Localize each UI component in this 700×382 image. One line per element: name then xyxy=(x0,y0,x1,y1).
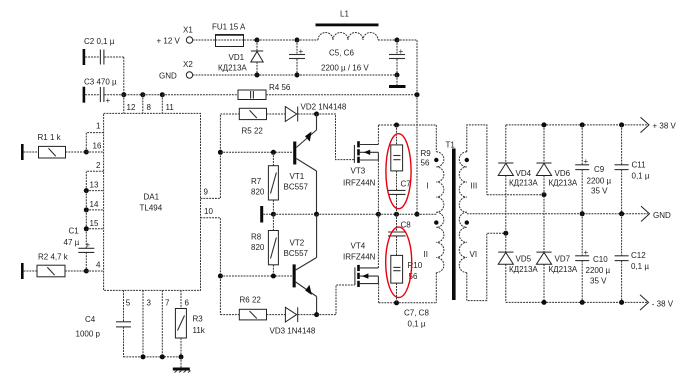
pin 11 stub xyxy=(162,95,174,114)
wire -38V rail xyxy=(506,301,647,303)
svg-text:+: + xyxy=(584,157,589,166)
junction dot C6 / GND stub xyxy=(395,73,400,78)
svg-text:II: II xyxy=(424,250,428,259)
svg-text:R3: R3 xyxy=(193,315,204,324)
junction dot pin1/pin16 xyxy=(84,150,89,155)
svg-text:КД213А: КД213А xyxy=(549,179,578,188)
svg-text:TL494: TL494 xyxy=(140,204,163,213)
highlight ellipse snubber 2 xyxy=(386,227,412,297)
svg-text:BC557: BC557 xyxy=(284,249,309,258)
svg-text:47 µ: 47 µ xyxy=(64,238,80,247)
resistor R5 22 xyxy=(239,108,266,135)
svg-text:I: I xyxy=(427,182,429,191)
svg-text:C1: C1 xyxy=(69,227,80,236)
svg-text:C4: C4 xyxy=(85,315,96,324)
wire VCC row to R4 xyxy=(162,94,238,96)
wire VD6 vertical top xyxy=(543,125,545,163)
wire R6 to VD3 xyxy=(267,314,286,316)
junction dot R7 top xyxy=(271,150,276,155)
svg-text:3: 3 xyxy=(147,299,152,308)
transformer T1 winding VI xyxy=(459,212,477,272)
resistor R4 56 xyxy=(238,83,291,100)
svg-text:R9: R9 xyxy=(421,149,432,158)
pin 13 wire xyxy=(86,181,103,191)
svg-text:16: 16 xyxy=(93,142,102,151)
transformer T1 winding II xyxy=(424,212,444,272)
wire primary top lead xyxy=(435,125,437,152)
phase dot winding III xyxy=(465,158,469,162)
wire secondary top lead jog xyxy=(467,125,487,195)
resistor R10 56 xyxy=(391,255,423,302)
svg-text:35 V: 35 V xyxy=(590,277,607,286)
transistor Q1 VT1 BC557 xyxy=(284,114,317,214)
pin 12 stub xyxy=(124,95,136,114)
svg-text:GND: GND xyxy=(653,211,671,220)
svg-text:12: 12 xyxy=(127,103,136,112)
wire VCC row pin8 to pin11 xyxy=(143,94,163,96)
svg-text:C12: C12 xyxy=(631,251,646,260)
svg-text:+: + xyxy=(584,248,589,257)
svg-text:VD1: VD1 xyxy=(229,53,245,62)
wire VD5 anode down xyxy=(505,264,507,302)
svg-text:КД213А: КД213А xyxy=(509,179,538,188)
junction dot +38 rail / C9 xyxy=(580,122,585,127)
junction dot VT1 emitter node xyxy=(314,112,319,117)
fuse FU1 15 A xyxy=(212,23,246,47)
wire VT3 source down xyxy=(377,160,379,214)
junction dot GND rail / C11 C12 xyxy=(619,211,624,216)
junction dot snubber bottom xyxy=(394,300,399,305)
svg-text:2: 2 xyxy=(96,161,101,170)
svg-text:2200 µ: 2200 µ xyxy=(587,177,612,186)
junction dot VCC at pin 12 stub xyxy=(121,92,126,97)
svg-text:BC557: BC557 xyxy=(284,183,309,192)
junction dot at C5 / +12 rail xyxy=(295,38,300,43)
svg-text:6: 6 xyxy=(185,299,190,308)
pin 15 wire xyxy=(86,219,103,229)
svg-text:VI: VI xyxy=(470,250,478,259)
transformer T1 winding III xyxy=(459,152,477,212)
svg-text:КД213А: КД213А xyxy=(509,265,538,274)
junction dot GND rail / C9 C10 xyxy=(580,211,585,216)
junction dot pin 7 bottom xyxy=(160,354,165,359)
diode VD2 1N4148 xyxy=(285,103,347,122)
svg-text:C3 470 µ: C3 470 µ xyxy=(84,78,117,87)
wire VD1 node to C5 node xyxy=(257,39,297,41)
svg-text:- 38 V: - 38 V xyxy=(652,300,674,309)
wire VD2 to VT1 emitter node xyxy=(298,113,317,115)
svg-text:820: 820 xyxy=(251,188,265,197)
junction dot -38 rail / VD7 xyxy=(542,300,547,305)
pin 7 wire xyxy=(162,290,170,357)
junction dot R7/R8 mid xyxy=(271,212,276,217)
capacitor C2 0,1u xyxy=(83,37,124,95)
svg-text:1: 1 xyxy=(96,122,101,131)
svg-text:VD3 1N4148: VD3 1N4148 xyxy=(270,327,316,336)
pin 2 wire xyxy=(86,161,103,191)
capacitor C7 0,1u xyxy=(388,171,411,214)
pin 8 stub xyxy=(143,95,152,114)
svg-text:VT3: VT3 xyxy=(351,167,366,176)
svg-text:+: + xyxy=(299,47,304,56)
inductor L1 xyxy=(316,10,379,41)
wire anode rail winding III xyxy=(487,194,544,196)
wire drain row top xyxy=(378,124,436,126)
wire bus 13-14 xyxy=(85,191,87,210)
junction dot pin4 node xyxy=(84,269,89,274)
pin 3 wire xyxy=(143,290,152,357)
svg-text:10: 10 xyxy=(204,207,213,216)
transistor Q3 VT3 IRFZ44N xyxy=(343,141,378,187)
svg-text:C7, C8: C7, C8 xyxy=(404,309,429,318)
resistor R2 4,7k xyxy=(21,253,86,280)
svg-text:R2 4,7 k: R2 4,7 k xyxy=(38,253,69,262)
junction dot VT3 source / VT4 drain node xyxy=(376,212,381,217)
wire +38V rail xyxy=(506,124,648,126)
svg-text:L1: L1 xyxy=(340,10,349,19)
junction dot +12V vertical / center rail xyxy=(415,212,420,217)
svg-text:+ 38 V: + 38 V xyxy=(653,122,677,131)
svg-text:R7: R7 xyxy=(251,177,262,186)
junction dot -38 rail / C10 xyxy=(580,300,585,305)
junction dot VD1 anode / GND rail xyxy=(255,73,260,78)
svg-text:2200 µ: 2200 µ xyxy=(586,266,611,275)
wire VD4 vertical top xyxy=(505,125,507,163)
wire R4 to +12V vertical xyxy=(266,94,417,96)
svg-text:35 V: 35 V xyxy=(591,187,608,196)
wire mid rail collectors to MOSFET node xyxy=(317,213,379,215)
junction dot pin10 vertical / VT2 base row xyxy=(218,274,223,279)
svg-text:820: 820 xyxy=(251,243,265,252)
svg-text:IRFZ44N: IRFZ44N xyxy=(343,179,376,188)
junction dot at pin 11 stub xyxy=(160,92,165,97)
ground chassis symbol DA1 xyxy=(173,357,191,373)
diode VD4 KD213A xyxy=(498,163,538,188)
svg-text:C5, C6: C5, C6 xyxy=(329,49,354,58)
diode VD3 1N4148 xyxy=(270,307,316,335)
svg-text:7: 7 xyxy=(165,299,170,308)
pin 14 wire xyxy=(86,200,103,210)
wire X2 GND rail xyxy=(193,74,397,76)
junction dot pin 14 xyxy=(84,207,89,212)
svg-text:+: + xyxy=(399,47,404,56)
junction dot pin 15 xyxy=(84,226,89,231)
capacitor C6 2200u xyxy=(389,40,405,75)
wire gate jog VT4 xyxy=(317,285,355,315)
wire base row VT2 xyxy=(220,275,292,277)
svg-text:13: 13 xyxy=(90,181,99,190)
resistor R8 820 xyxy=(251,214,278,276)
junction dot at pin 8 stub xyxy=(140,92,145,97)
capacitor C5 2200u xyxy=(289,40,369,75)
svg-text:8: 8 xyxy=(147,103,152,112)
svg-text:VD4: VD4 xyxy=(516,169,532,178)
svg-text:III: III xyxy=(471,182,478,191)
wire VD3 to VT2 emitter node xyxy=(298,314,317,316)
diode VD1 KD213A xyxy=(218,40,263,75)
wire VD5 vertical top xyxy=(505,233,507,252)
svg-text:11k: 11k xyxy=(193,326,206,335)
phase dot winding VI xyxy=(465,220,469,224)
svg-text:R4 56: R4 56 xyxy=(269,83,291,92)
node -38V arrow xyxy=(640,295,674,310)
svg-text:C10: C10 xyxy=(593,255,608,264)
svg-text:IRFZ44N: IRFZ44N xyxy=(343,253,376,262)
wire base row VT1 xyxy=(220,151,293,153)
svg-text:DA1: DA1 xyxy=(144,193,160,202)
svg-text:2200 µ / 16 V: 2200 µ / 16 V xyxy=(321,64,369,73)
wire secondary bottom lead jog xyxy=(467,233,506,300)
resistor R3 11k xyxy=(175,309,205,357)
pin 16 wire xyxy=(86,142,103,153)
terminal X1 +12V input xyxy=(157,26,194,46)
label C7 C8 value xyxy=(404,309,429,329)
svg-text:VT1: VT1 xyxy=(290,172,305,181)
svg-text:1000 p: 1000 p xyxy=(76,330,101,339)
svg-text:C2 0,1 µ: C2 0,1 µ xyxy=(84,37,115,46)
capacitor C9 2200u 35V xyxy=(575,125,611,214)
wire bottom rail xyxy=(124,356,182,358)
svg-text:VD5: VD5 xyxy=(516,255,532,264)
svg-text:X2: X2 xyxy=(183,60,193,69)
svg-text:11: 11 xyxy=(166,103,175,112)
terminal X2 GND input xyxy=(159,60,193,81)
junction dot pin 13 xyxy=(84,188,89,193)
resistor R7 820 xyxy=(251,152,278,214)
wire drain row bottom xyxy=(379,302,437,304)
svg-text:15: 15 xyxy=(90,219,99,228)
junction dot pin 6 bottom xyxy=(179,354,184,359)
svg-text:R10: R10 xyxy=(408,261,423,270)
svg-text:C11: C11 xyxy=(632,161,647,170)
pin 1 wire xyxy=(86,122,103,153)
transformer T1 winding I xyxy=(427,152,444,212)
junction dot C5 / GND rail xyxy=(295,73,300,78)
wire pin10 node to R6 xyxy=(220,314,239,316)
wire VCC row to pin8 stub xyxy=(104,94,142,96)
capacitor C8 0,1u xyxy=(388,214,411,255)
junction dot +38 rail / VD6 xyxy=(542,122,547,127)
wire C5 node to L1 xyxy=(297,39,318,41)
resistor R1 1k xyxy=(21,133,86,160)
node +38V arrow xyxy=(641,117,677,132)
transistor Q2 VT2 BC557 xyxy=(284,214,317,314)
wire primary bottom lead xyxy=(435,273,437,303)
diode VD6 KD213A xyxy=(536,163,578,188)
node GND arrow xyxy=(641,206,671,221)
phase dot winding I xyxy=(434,158,438,162)
junction dot at C6 / +12 rail xyxy=(395,38,400,43)
capacitor C3 470u xyxy=(83,78,117,106)
svg-text:VD7: VD7 xyxy=(555,255,571,264)
junction dot R4 line / +12V vertical xyxy=(415,92,420,97)
junction dot R8 bottom xyxy=(271,274,276,279)
wire R5 to VD2 xyxy=(267,113,286,115)
junction dot at VD1 cathode / +12 rail xyxy=(255,38,260,43)
svg-text:GND: GND xyxy=(159,72,177,81)
highlight ellipse snubber 1 xyxy=(386,134,411,209)
junction dot -38 rail / C12 xyxy=(619,300,624,305)
wire gate jog VT3 xyxy=(317,114,355,160)
junction dot anode rail / VD6 xyxy=(542,192,547,197)
svg-text:R5 22: R5 22 xyxy=(242,127,264,136)
wire mid rail snubber to +12 vertical xyxy=(397,213,418,215)
svg-text:5: 5 xyxy=(126,299,131,308)
wire bus 14-15 xyxy=(85,210,87,229)
pin 9 wire xyxy=(201,114,221,198)
svg-text:0,1 µ: 0,1 µ xyxy=(632,172,650,181)
svg-text:VD6: VD6 xyxy=(555,169,571,178)
wire X1 to FU1 xyxy=(193,39,215,41)
svg-text:VT2: VT2 xyxy=(290,239,305,248)
capacitor C10 2200u 35V xyxy=(575,214,610,303)
wire mid rail to snubber mid xyxy=(378,213,396,215)
svg-text:R6 22: R6 22 xyxy=(240,296,262,305)
ground symbol at input filter xyxy=(389,75,406,88)
pin 4 wire xyxy=(86,261,103,272)
wire VT4 drain up xyxy=(377,214,379,268)
junction dot +38 rail / C11 xyxy=(619,122,624,127)
wire VT4 source down xyxy=(378,284,380,303)
wire VD7 anode down xyxy=(543,264,545,302)
svg-text:0,1 µ: 0,1 µ xyxy=(631,262,649,271)
svg-text:КД213А: КД213А xyxy=(549,265,578,274)
svg-text:56: 56 xyxy=(421,159,430,168)
svg-text:9: 9 xyxy=(204,188,209,197)
capacitor C1 47u xyxy=(64,227,95,272)
svg-text:VD2 1N4148: VD2 1N4148 xyxy=(301,103,347,112)
transformer T1 core xyxy=(446,141,456,301)
junction dot VT1/VT2 collectors xyxy=(314,212,319,217)
svg-text:C9: C9 xyxy=(594,165,605,174)
capacitor C11 0,1u xyxy=(615,125,650,214)
diode VD5 KD213A xyxy=(498,252,538,274)
wire VD6 anode down xyxy=(543,176,545,253)
svg-text:0,1 µ: 0,1 µ xyxy=(408,320,426,329)
pin 6 wire xyxy=(181,290,190,308)
diode VD7 KD213A xyxy=(536,252,578,274)
svg-text:14: 14 xyxy=(90,200,99,209)
wire GND rail xyxy=(467,213,648,215)
svg-text:+: + xyxy=(86,241,91,250)
svg-text:VT4: VT4 xyxy=(351,242,366,251)
junction dot pin9 vertical / VT1 base row xyxy=(218,150,223,155)
wire bus 15 to C1 xyxy=(85,229,87,249)
wire +12V vertical down to center tap rail xyxy=(416,95,418,215)
wire mid rail R7 to VT1 collector xyxy=(273,213,316,215)
junction dot snubber midpoint xyxy=(394,212,399,217)
junction dot VT2 emitter node xyxy=(314,312,319,317)
wire VT3 drain up xyxy=(377,125,379,145)
pin 5 wire xyxy=(124,290,131,321)
junction dot node winding VI bottom xyxy=(503,231,508,236)
svg-text:КД213А: КД213А xyxy=(218,64,247,73)
svg-text:X1: X1 xyxy=(183,26,193,35)
resistor R6 22 xyxy=(239,296,266,320)
resistor R9 56 xyxy=(391,125,431,171)
wire mid rail to transformer center tap xyxy=(417,213,436,215)
transistor Q4 VT4 IRFZ44N xyxy=(343,242,379,288)
op-amp U1 DA1 TL494 body xyxy=(104,113,201,290)
svg-text:R1 1 k: R1 1 k xyxy=(38,133,62,142)
wire VD4 anode down xyxy=(505,176,507,234)
wire L1 to C6 node xyxy=(378,39,397,41)
phase dot winding II xyxy=(434,220,438,224)
junction dot snubber top xyxy=(394,123,399,128)
wire pin9 node to R5 xyxy=(220,113,239,115)
capacitor C4 1000p xyxy=(76,315,132,357)
svg-text:+ 12 V: + 12 V xyxy=(157,37,181,46)
capacitor C12 0,1u xyxy=(615,214,650,303)
svg-text:+: + xyxy=(106,96,111,105)
ground bar at driver common xyxy=(260,206,273,223)
svg-text:R8: R8 xyxy=(251,233,262,242)
svg-text:FU1 15 A: FU1 15 A xyxy=(212,23,246,32)
wire FU1 to node xyxy=(244,39,257,41)
pin 10 wire xyxy=(201,207,221,315)
svg-text:T1: T1 xyxy=(446,141,456,150)
junction dot pin 3 bottom xyxy=(141,354,146,359)
wire C6 node to +12V drop corner xyxy=(397,40,417,95)
svg-text:4: 4 xyxy=(96,261,101,270)
